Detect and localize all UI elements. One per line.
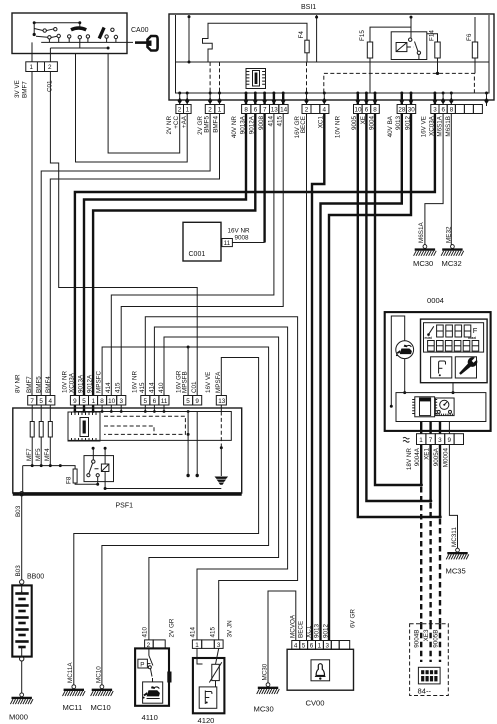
wire XE3 dashed (to 84 box) — [429, 503, 431, 624]
svg-text:F6: F6 — [466, 33, 473, 41]
svg-text:40V NR: 40V NR — [231, 116, 238, 139]
svg-text:2: 2 — [208, 107, 212, 114]
wire 9004B dashed (to 84 box) — [420, 487, 422, 624]
wire B03 (PSF1 to battery) — [20, 492, 24, 496]
svg-text:6V GR: 6V GR — [350, 609, 357, 628]
wire 9013A (BSI1 pin8 to PSF1) — [84, 114, 246, 396]
svg-text:MPSFC: MPSFC — [96, 371, 103, 393]
BSI1 internal wire node — [188, 15, 190, 62]
fuse F15 — [359, 27, 411, 92]
svg-text:9004A: 9004A — [414, 447, 421, 466]
PSF1 pin 13 (16V VE) — [216, 396, 226, 406]
svg-text:BMF4: BMF4 — [213, 116, 220, 133]
svg-text:BECE: BECE — [297, 621, 304, 638]
wire MCV0A (CV00 pin4 to ground MC30) — [268, 591, 296, 683]
battery BB00 — [12, 584, 31, 693]
svg-text:13: 13 — [271, 107, 279, 114]
svg-text:40V BA: 40V BA — [387, 115, 394, 137]
connector C01 — [26, 62, 58, 72]
svg-text:14: 14 — [280, 107, 288, 114]
BSI1 pin XC1 (pin 4) — [320, 105, 329, 114]
svg-text:+CC: +CC — [173, 116, 180, 129]
wire 410 (PSF1 pin11 to 4110) — [149, 337, 279, 640]
svg-text:5: 5 — [302, 643, 306, 650]
svg-text:MCVOA: MCVOA — [290, 614, 297, 638]
PSF1 pin row group 10V NR (9,5,1,8,10,3) — [70, 396, 125, 406]
svg-text:F: F — [473, 326, 478, 335]
PSF1 internal top bus — [68, 412, 231, 441]
ignition internal top rail — [34, 22, 80, 24]
svg-text:0004: 0004 — [427, 296, 444, 305]
svg-text:3V JN: 3V JN — [226, 620, 233, 638]
svg-text:1: 1 — [92, 398, 96, 405]
ignition internal rail B — [50, 47, 108, 49]
0004 IC symbol — [412, 397, 437, 417]
fuse F14 — [427, 30, 440, 74]
svg-text:2: 2 — [178, 107, 182, 114]
0004 oil pressure indicator circle — [396, 341, 414, 359]
fuse F6 — [466, 17, 477, 73]
wire BECE (BSI1 to CV00 pin5) — [306, 114, 308, 641]
svg-text:9013A: 9013A — [78, 374, 85, 393]
relay RL (BSI1) — [391, 16, 427, 60]
svg-text:6: 6 — [310, 643, 314, 650]
svg-text:9005B: 9005B — [433, 630, 440, 648]
svg-text:P: P — [140, 661, 144, 668]
BSI1 outer box — [169, 14, 494, 100]
svg-text:3: 3 — [433, 107, 437, 114]
wire 414 (BSI1 pin13 to PSF1 pin10) — [111, 114, 274, 396]
ground MC35 — [446, 548, 469, 559]
svg-text:9008: 9008 — [235, 235, 250, 242]
svg-text:9: 9 — [448, 437, 452, 444]
wire 415 (BSI1 pin14 to PSF1 pin3) — [121, 114, 283, 396]
wire MPSFC/MPSFB to ground MC10 — [102, 347, 269, 685]
0004 display panel feed wire — [452, 383, 454, 393]
svg-text:5: 5 — [144, 398, 148, 405]
svg-text:7: 7 — [30, 398, 34, 405]
svg-text:MC30: MC30 — [262, 663, 269, 680]
svg-text:XE1: XE1 — [424, 448, 431, 460]
svg-text:B03: B03 — [15, 505, 22, 517]
svg-text:C01: C01 — [191, 381, 198, 393]
fuse MF4 — [44, 422, 52, 466]
svg-text:5: 5 — [82, 398, 86, 405]
0004 gauge symbol — [435, 398, 454, 416]
svg-text:7: 7 — [263, 107, 267, 114]
svg-text:BB00: BB00 — [27, 574, 44, 581]
svg-text:5: 5 — [186, 398, 190, 405]
svg-text:MC311: MC311 — [451, 527, 458, 547]
component CV00 (buzzer) — [287, 641, 353, 708]
wire XE/XE1 (BSI1 pin6 to 0004 pin7) — [366, 114, 430, 502]
ground MC30 (bottom) — [257, 683, 280, 694]
svg-text:414: 414 — [105, 382, 112, 393]
svg-text:4120: 4120 — [198, 716, 215, 724]
ignition stub to C01 pin1 — [31, 42, 33, 61]
BSI1 divider node — [316, 15, 318, 62]
svg-text:MC11: MC11 — [63, 703, 83, 712]
svg-text:7: 7 — [429, 437, 433, 444]
svg-text:8: 8 — [100, 398, 104, 405]
fuse MF5 — [35, 422, 43, 466]
wire +CC (BSI1 to ignition) — [108, 54, 180, 154]
svg-text:mini: mini — [425, 336, 432, 340]
BSI1 pin row 16V VE (pins 3,6,8) + empties — [431, 105, 483, 114]
svg-text:BMF4: BMF4 — [45, 376, 52, 393]
svg-text:M0004: M0004 — [442, 448, 449, 468]
svg-text:MPSFB: MPSFB — [182, 371, 189, 393]
svg-text:3V VE: 3V VE — [14, 80, 21, 98]
svg-text:3: 3 — [326, 643, 330, 650]
svg-text:4: 4 — [323, 107, 327, 114]
svg-text:MF5: MF5 — [35, 448, 42, 461]
ignition internal rail A — [41, 41, 133, 43]
svg-text:11: 11 — [161, 398, 168, 405]
SEC-0004 — [385, 222, 491, 576]
wire MPSFB branch — [187, 347, 189, 396]
relay (PSF1) — [84, 447, 221, 490]
wire 9008 (BSI1 pin7 to C001) — [263, 114, 265, 243]
svg-text:415: 415 — [115, 382, 122, 393]
digit row 1 (8888 F) — [437, 325, 471, 337]
svg-text:28: 28 — [398, 107, 406, 114]
wire C01 (C01 pin2 to PSF1 pin9) — [50, 72, 197, 396]
ignition stub to C01 pin2 — [49, 48, 51, 62]
0004 display panel — [421, 319, 488, 383]
svg-text:2: 2 — [48, 64, 52, 71]
svg-text:F15: F15 — [359, 30, 366, 41]
svg-text:4110: 4110 — [142, 713, 158, 722]
ground MC32 — [441, 245, 464, 256]
C001 pin 11 — [222, 239, 233, 247]
BSI1 connector comb component — [246, 69, 266, 89]
svg-text:6: 6 — [365, 107, 369, 114]
BSI1 dashed internal bus (right) — [324, 73, 475, 92]
0004 oil icon loop wire — [391, 316, 404, 406]
svg-text:CA00: CA00 — [131, 27, 149, 34]
svg-text:F4: F4 — [298, 31, 305, 39]
svg-text:3: 3 — [438, 437, 442, 444]
svg-text:1: 1 — [195, 642, 199, 649]
svg-text:F14: F14 — [429, 30, 436, 41]
svg-text:8: 8 — [244, 107, 248, 114]
PSF1 internal ground (MPSFA) — [215, 412, 229, 485]
svg-text:4: 4 — [49, 398, 53, 405]
BSI1 pin stubs and arrows — [178, 93, 489, 106]
svg-text:M6S1A: M6S1A — [437, 115, 444, 136]
0004 lower electronics sub-box — [396, 393, 486, 422]
wire M6S1B/ME32 (BSI1 to ground MC32) — [451, 114, 452, 245]
svg-text:3: 3 — [217, 642, 221, 649]
svg-text:9012: 9012 — [322, 623, 329, 638]
svg-text:414: 414 — [267, 116, 274, 127]
svg-text:84--: 84-- — [418, 687, 432, 696]
wire BMF4 (BSI1 to PSF1 pin4) — [50, 114, 219, 396]
svg-text:MC32: MC32 — [442, 259, 462, 268]
display digits frame — [424, 323, 484, 352]
digit row 2 (888888) — [428, 341, 479, 352]
SEC-WIRES — [32, 54, 458, 685]
wire BMF7 (C01 pin1 to PSF1 pin7) — [31, 72, 33, 396]
svg-text:9013: 9013 — [314, 623, 321, 638]
svg-text:MPSFA: MPSFA — [215, 371, 222, 393]
svg-text:BMF7: BMF7 — [26, 376, 33, 393]
wire XC03A (BSI1 to PSF1 pin9 group) — [75, 114, 435, 396]
svg-text:B03: B03 — [15, 565, 22, 577]
svg-text:M6S1B: M6S1B — [445, 116, 452, 137]
fuel needle icon — [428, 326, 434, 335]
svg-text:1: 1 — [419, 437, 423, 444]
svg-text:6: 6 — [153, 398, 157, 405]
ignition switch contact S1 — [33, 23, 61, 43]
svg-text:8: 8 — [450, 107, 454, 114]
svg-text:8: 8 — [373, 107, 377, 114]
ground M000 — [10, 693, 33, 704]
svg-text:XE3: XE3 — [423, 629, 430, 641]
svg-text:9: 9 — [73, 398, 77, 405]
PSF1 dashed connector outline — [104, 416, 185, 434]
wire M6S1A (BSI1 to ground MC30) — [425, 114, 443, 245]
junction dots 9004B/XE3/9005B — [420, 483, 423, 486]
svg-text:415: 415 — [277, 116, 284, 127]
svg-text:1: 1 — [186, 107, 190, 114]
svg-text:1: 1 — [218, 107, 222, 114]
svg-text:9012A: 9012A — [87, 374, 94, 393]
BSI1 dashed internal stubs (left) — [210, 62, 306, 93]
svg-text:MC30: MC30 — [413, 259, 433, 268]
svg-text:MC35: MC35 — [446, 567, 466, 576]
svg-text:maxi: maxi — [468, 336, 476, 340]
PSF1 pin stubs into box — [32, 405, 221, 422]
svg-text:MC10: MC10 — [91, 703, 111, 712]
svg-text:1: 1 — [30, 64, 34, 71]
svg-text:1: 1 — [318, 643, 322, 650]
svg-text:BMF5: BMF5 — [36, 376, 43, 393]
svg-text:415: 415 — [210, 626, 217, 637]
svg-text:13: 13 — [218, 398, 226, 405]
PSF1 internal test stubs — [188, 412, 197, 476]
BSI1 pin row 10V NR (pins 10,6,8) — [354, 105, 380, 114]
wire 9012A (BSI1 pin6 to PSF1) — [93, 114, 255, 396]
ground MC10 — [91, 685, 114, 696]
component 4110 (oil pressure switch) — [135, 618, 175, 722]
PSF1 battery feed bus — [23, 466, 61, 493]
svg-text:2: 2 — [305, 107, 309, 114]
svg-text:F8: F8 — [65, 476, 72, 484]
svg-text:XC03A: XC03A — [69, 372, 76, 393]
wire 414 (PSF1 pin6 to 4120 pin1) — [154, 327, 287, 640]
svg-text:CV00: CV00 — [306, 699, 325, 708]
0004 harness squiggle — [403, 437, 409, 442]
svg-text:MC11A: MC11A — [67, 662, 74, 683]
BSI1 pin row 40V BA (pins 28,30) — [397, 105, 416, 114]
svg-text:414: 414 — [190, 626, 197, 637]
wire BMF5 (BSI1 to PSF1 pin5) — [41, 114, 210, 396]
svg-text:MF7: MF7 — [26, 448, 33, 461]
svg-text:10V NR: 10V NR — [62, 370, 69, 393]
svg-text:MC30: MC30 — [254, 705, 274, 714]
ground MC30 (upper) — [414, 245, 437, 256]
wire XC1 (BSI1 pin4 to CV00 pin6) — [312, 114, 324, 641]
svg-text:BSI1: BSI1 — [301, 4, 316, 11]
fuse F8 — [60, 466, 97, 485]
wire +AA (BSI1 to ignition) — [76, 54, 188, 163]
svg-text:BMF7: BMF7 — [22, 81, 29, 98]
ignition switch unit box — [12, 13, 127, 54]
PSF1 pin row group 16V NR (5,6,11) — [141, 396, 169, 406]
icon box wrench — [455, 357, 477, 378]
svg-text:PSF1: PSF1 — [116, 503, 134, 510]
PSF1 IC block — [68, 412, 100, 441]
BSI1 pin 16V GR (pin 2) + empty — [302, 105, 320, 114]
fuse F4 — [298, 31, 309, 62]
connector 84 dashed box — [410, 624, 449, 696]
wire 9005/9005A (BSI1 pin10 to 0004 pin3) — [358, 114, 440, 518]
svg-text:9005A: 9005A — [433, 447, 440, 466]
BSI1 mid rail — [176, 61, 490, 63]
svg-text:C001: C001 — [189, 251, 206, 258]
BSI1 pin row 40V NR (pins 8,6,7,13,14) — [242, 105, 288, 114]
svg-text:410: 410 — [158, 382, 165, 393]
svg-text:10: 10 — [355, 107, 363, 114]
wire 415 (PSF1 pin5 to 4120 pin3) — [145, 317, 297, 640]
0004 pin row (1,7,3,9) — [417, 434, 464, 445]
PSF1 pin row group 16V GR (5,9) — [184, 396, 202, 406]
BSI1 bottom junction dots — [178, 92, 488, 95]
svg-text:10V NR: 10V NR — [335, 116, 342, 139]
svg-text:9004B: 9004B — [414, 630, 421, 648]
svg-text:16V VE: 16V VE — [420, 116, 427, 137]
0004 instrument cluster box — [385, 312, 491, 431]
BSI1 pin row 2V NR (pins 2,1) — [176, 105, 191, 114]
key CA00 symbol — [135, 36, 158, 51]
PSF1 pin row group 8V NR (7,5,4) — [28, 396, 55, 406]
wire 9013 (BSI1 pin28 to CV00 pin1) — [321, 114, 402, 641]
svg-text:6: 6 — [254, 107, 258, 114]
svg-text:6: 6 — [442, 107, 446, 114]
icon box fuel gauge — [431, 357, 452, 378]
SEC-BSI — [166, 4, 494, 138]
wire MPSFA to ground MC11 — [74, 358, 259, 685]
svg-text:2V GR: 2V GR — [169, 618, 176, 637]
SEC-PSF1 — [13, 222, 250, 509]
SEC-IGNITION — [12, 13, 158, 98]
svg-text:18V NR: 18V NR — [406, 448, 413, 471]
wire 9004/9004A (BSI1 pin8 to 0004 pin1) — [375, 114, 421, 486]
ignition switch contact S2 — [68, 23, 90, 48]
svg-text:11: 11 — [224, 240, 231, 247]
SEC-BOTTOM — [9, 492, 448, 724]
svg-text:9: 9 — [195, 398, 199, 405]
wire M0004 (0004 pin9 to ground MC35) — [449, 445, 457, 549]
BSI1 inner border — [176, 15, 490, 93]
ignition switch contact S3 — [98, 27, 118, 43]
PSF1 box — [13, 408, 242, 493]
BSI1 internal loop with offset jog — [203, 23, 308, 62]
0004 pin stubs — [421, 422, 440, 434]
svg-text:XC1: XC1 — [305, 625, 312, 638]
svg-text:8V NR: 8V NR — [15, 374, 22, 393]
svg-text:MF4: MF4 — [44, 448, 51, 461]
svg-text:M6S1A: M6S1A — [418, 222, 425, 243]
component 4120 (fuel gauge sender) — [190, 620, 234, 724]
svg-text:414: 414 — [148, 382, 155, 393]
svg-text:16V NR: 16V NR — [228, 228, 251, 235]
svg-text:MC10: MC10 — [95, 666, 102, 683]
svg-text:30: 30 — [408, 107, 416, 114]
svg-text:BECE: BECE — [300, 116, 307, 133]
svg-text:2V NR: 2V NR — [166, 116, 173, 135]
svg-text:ME32: ME32 — [446, 226, 453, 243]
svg-text:5: 5 — [39, 398, 43, 405]
BSI1 pin row 2V GR (pins 2,1) — [205, 105, 224, 114]
ground MC11 — [63, 685, 86, 696]
svg-text:16V NR: 16V NR — [132, 370, 139, 393]
wire 9012 (BSI1 pin30 to CV00 pin3) — [329, 114, 411, 641]
svg-text:10: 10 — [108, 398, 116, 405]
svg-text:3: 3 — [120, 398, 124, 405]
svg-text:16V VE: 16V VE — [205, 372, 212, 393]
svg-text:M000: M000 — [9, 713, 28, 722]
svg-text:4: 4 — [294, 643, 298, 650]
wire 9005B dashed (to 84 box) — [439, 519, 441, 624]
svg-text:BMF5: BMF5 — [204, 116, 211, 133]
svg-text:415: 415 — [139, 382, 146, 393]
C001 box — [183, 222, 221, 261]
svg-text:410: 410 — [141, 626, 148, 637]
fuse MF7 — [26, 422, 34, 466]
